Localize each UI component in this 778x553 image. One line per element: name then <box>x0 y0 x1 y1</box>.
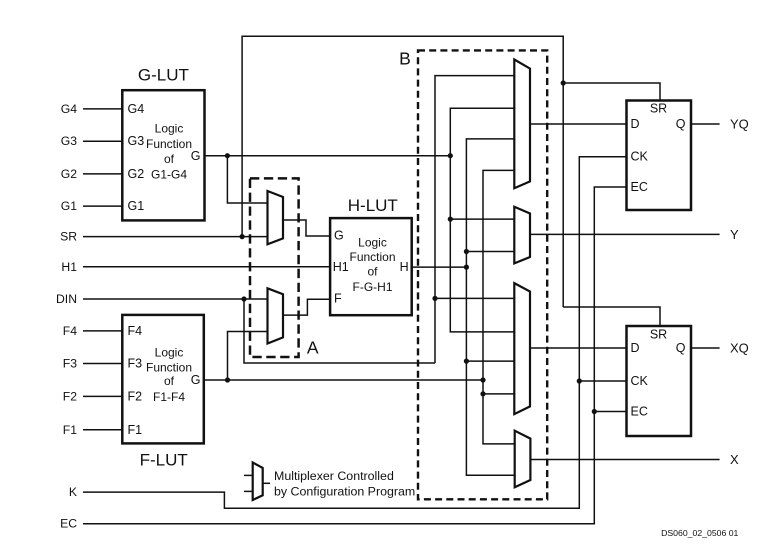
node G at B vertical <box>448 153 453 158</box>
wire F net from F-LUT into box B <box>204 379 483 381</box>
svg-text:by Configuration Program: by Configuration Program <box>274 484 415 498</box>
dashed box A <box>250 178 299 357</box>
wire K branch to FF2 CK <box>579 380 626 382</box>
wire mux A2 output to H-LUT F pin <box>283 299 330 315</box>
wire EC branch to FF2 EC <box>594 411 626 413</box>
svg-text:of: of <box>367 265 378 279</box>
node SR rail junction <box>561 80 566 85</box>
svg-text:G4: G4 <box>128 102 145 116</box>
svg-text:Function: Function <box>146 137 192 151</box>
wire G branch to mux B2 <box>450 218 514 220</box>
svg-text:G1: G1 <box>61 199 77 213</box>
svg-text:Y: Y <box>730 227 739 242</box>
node H to mux B3 <box>464 359 469 364</box>
svg-text:DS060_02_0506 01: DS060_02_0506 01 <box>661 528 738 538</box>
wire H branch to mux B2 <box>466 251 514 253</box>
wire mux B1 output to FF1 D <box>530 123 627 125</box>
flip-flop FF1 box <box>627 101 692 211</box>
svg-text:G: G <box>334 229 344 243</box>
svg-text:F-LUT: F-LUT <box>140 451 188 470</box>
svg-text:Q: Q <box>676 341 686 355</box>
wire F3 input <box>83 363 122 365</box>
svg-text:G4: G4 <box>61 102 77 116</box>
mux B1 <box>514 60 530 189</box>
wire H net from H-LUT into box B <box>412 266 467 268</box>
wire FF1 Q to YQ <box>691 123 720 125</box>
svg-text:F3: F3 <box>63 357 77 371</box>
wire SR to FF1 <box>563 83 660 101</box>
svg-text:Q: Q <box>676 117 686 131</box>
wire G4 input <box>83 108 122 110</box>
node F to mux B3 <box>480 391 485 396</box>
svg-text:EC: EC <box>60 517 77 531</box>
svg-text:F3: F3 <box>128 357 143 371</box>
svg-text:F1-F4: F1-F4 <box>153 390 185 404</box>
node G branch junction <box>225 153 230 158</box>
svg-text:of: of <box>164 152 175 166</box>
wire FF2 Q to XQ <box>691 347 720 349</box>
svg-text:H1: H1 <box>61 260 77 274</box>
wire G net from G-LUT into box B <box>204 155 450 157</box>
wire G1 input <box>83 205 122 207</box>
legend mux output stub <box>263 482 270 484</box>
wire Y output <box>530 233 720 235</box>
node H to mux B2 <box>464 249 469 254</box>
svg-text:F: F <box>334 292 342 306</box>
legend mux symbol <box>253 463 263 501</box>
node K to FF2 CK <box>577 378 582 383</box>
svg-text:F1: F1 <box>63 423 77 437</box>
svg-text:G-LUT: G-LUT <box>138 65 189 84</box>
node DIN to mux B3 <box>432 296 437 301</box>
svg-text:H-LUT: H-LUT <box>348 196 398 215</box>
flip-flop FF2 box <box>627 326 692 436</box>
wire F4 input <box>83 330 122 332</box>
wire SR input to mux A1 <box>83 236 268 238</box>
node H at B vertical <box>464 265 469 270</box>
wire G2 input <box>83 173 122 175</box>
wire F branch to mux A2 <box>228 332 268 381</box>
wire mux B3 output to FF2 D <box>530 347 627 349</box>
svg-text:Function: Function <box>349 250 395 264</box>
svg-text:F1: F1 <box>128 423 143 437</box>
wire DIN route under box A into box B <box>244 299 435 363</box>
node DIN junction <box>241 296 246 301</box>
svg-text:XQ: XQ <box>730 341 749 356</box>
svg-text:A: A <box>307 338 319 358</box>
svg-text:H: H <box>400 260 409 274</box>
svg-text:F2: F2 <box>128 389 143 403</box>
svg-text:CK: CK <box>631 374 649 388</box>
svg-text:X: X <box>730 452 739 467</box>
mux B4 <box>515 431 531 488</box>
wire F1 input <box>83 429 122 431</box>
wire F branch to mux B3 <box>483 393 514 395</box>
svg-text:G3: G3 <box>128 134 145 148</box>
svg-text:G3: G3 <box>61 134 77 148</box>
svg-text:G1: G1 <box>128 199 145 213</box>
svg-text:Logic: Logic <box>358 235 387 249</box>
svg-text:F-G-H1: F-G-H1 <box>353 280 393 294</box>
svg-text:EC: EC <box>631 405 648 419</box>
svg-text:G1-G4: G1-G4 <box>151 167 187 181</box>
svg-text:D: D <box>631 117 640 131</box>
svg-text:K: K <box>69 485 77 499</box>
dashed box B <box>418 50 547 499</box>
mux B3 <box>514 283 530 414</box>
wire G branch to mux A1 <box>227 156 267 203</box>
svg-text:F2: F2 <box>63 389 77 403</box>
svg-text:D: D <box>631 341 640 355</box>
svg-text:SR: SR <box>650 102 667 116</box>
wire DIN branch to mux B3 <box>435 297 514 299</box>
node G to mux B2 <box>448 217 453 222</box>
svg-text:SR: SR <box>650 327 667 341</box>
wire G3 input <box>83 140 122 142</box>
svg-text:DIN: DIN <box>56 292 77 306</box>
node EC to FF2 EC <box>592 409 597 414</box>
wire H vertical in box B <box>466 139 514 475</box>
svg-text:G: G <box>191 149 201 163</box>
svg-text:Logic: Logic <box>155 122 184 136</box>
mux A2 <box>268 288 284 343</box>
svg-text:EC: EC <box>631 180 648 194</box>
svg-text:G2: G2 <box>61 167 77 181</box>
node F branch junction <box>225 377 230 382</box>
node SR junction <box>240 234 245 239</box>
wire F2 input <box>83 395 122 397</box>
wire SR riser and top rail to flip-flops <box>242 36 563 307</box>
svg-text:G2: G2 <box>128 167 145 181</box>
legend mux input stubs <box>244 474 253 476</box>
wire H branch to mux B3 <box>466 360 514 362</box>
F-LUT box <box>122 315 204 444</box>
mux A1 <box>268 191 284 244</box>
node F at B vertical <box>480 377 485 382</box>
wire EC net <box>83 187 627 524</box>
svg-text:Multiplexer Controlled: Multiplexer Controlled <box>274 469 394 483</box>
wire G vertical in box B <box>450 108 514 332</box>
svg-text:B: B <box>399 49 411 69</box>
svg-text:F4: F4 <box>128 324 143 338</box>
svg-text:CK: CK <box>631 150 649 164</box>
svg-text:Function: Function <box>146 360 192 374</box>
wire F vertical in box B <box>483 170 515 444</box>
H-LUT box <box>330 218 412 315</box>
wire X output <box>530 459 719 461</box>
svg-text:SR: SR <box>60 230 77 244</box>
svg-text:Logic: Logic <box>155 346 184 360</box>
wire mux A1 output to H-LUT G pin <box>283 220 330 236</box>
wire DIN input to mux A2 <box>83 298 268 300</box>
svg-text:F4: F4 <box>63 324 77 338</box>
svg-text:YQ: YQ <box>730 117 749 132</box>
mux B2 <box>514 207 530 264</box>
svg-text:G: G <box>191 373 201 387</box>
wire SR to FF2 <box>563 307 660 326</box>
svg-text:of: of <box>164 374 175 388</box>
svg-text:H1: H1 <box>333 260 349 274</box>
wire DIN vertical in box B <box>435 76 514 363</box>
wire H1 input to H-LUT <box>83 266 330 268</box>
wire K clock net <box>83 157 627 509</box>
G-LUT box <box>122 90 204 220</box>
